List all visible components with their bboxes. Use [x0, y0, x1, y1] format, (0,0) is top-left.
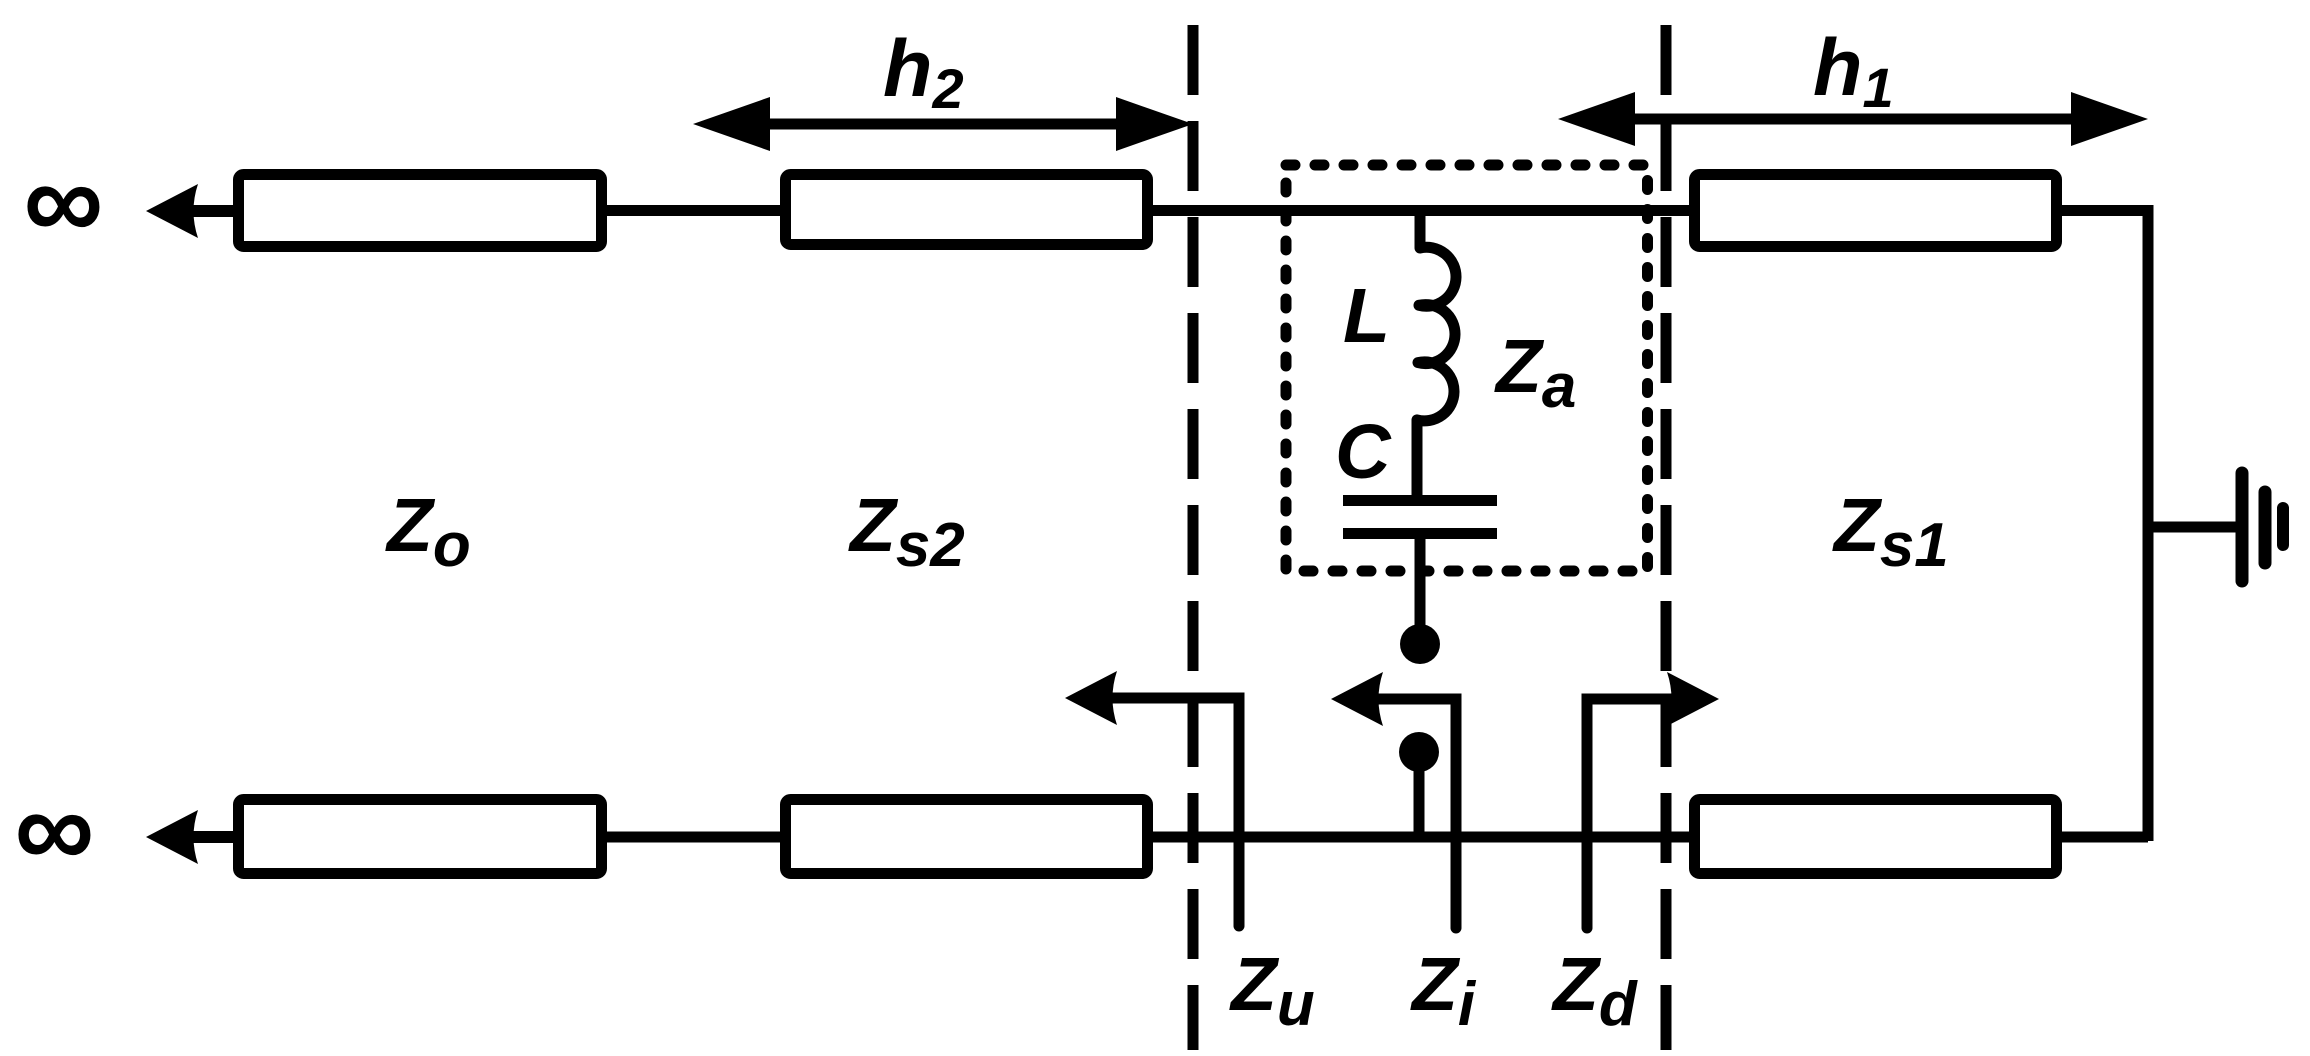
ground symbol (rotated) — [2242, 473, 2283, 581]
ground stub wire — [2148, 522, 2240, 533]
wire top-center across reference planes — [1151, 205, 1691, 216]
svg-text:C: C — [1335, 409, 1392, 495]
arrow top-left (to infinity) — [146, 184, 236, 238]
node dot lower (feed terminal) — [1399, 732, 1439, 772]
svg-text:∞: ∞ — [23, 138, 103, 263]
reference plane dashed line right (Zd plane) — [1661, 25, 1672, 1050]
wire between bottom boxes — [605, 832, 782, 843]
inductor L — [1417, 212, 1456, 497]
arrow bottom-left (to infinity) — [146, 810, 236, 864]
probe Zd (arrow looking right at lower plane) — [1582, 672, 1720, 928]
svg-text:∞: ∞ — [14, 766, 94, 891]
wire from top-right box to right corner and down — [2055, 211, 2148, 842]
probe Zi (arrow looking left at feed) — [1331, 672, 1462, 928]
wire bottom-center across reference planes — [1151, 832, 1691, 843]
transmission line section box top-right (Zs1) — [1695, 175, 2057, 247]
transmission line section box top-left (Z0) — [239, 175, 602, 247]
dimension arrow h1 — [1558, 92, 2148, 146]
svg-text:L: L — [1343, 273, 1390, 359]
transmission line section box top-middle (Zs2) — [786, 175, 1148, 245]
wire between top boxes — [605, 205, 782, 216]
wire capacitor to upper node — [1415, 536, 1426, 644]
transmission line section box bottom-right — [1695, 800, 2057, 874]
dimension arrow h2 — [693, 97, 1193, 151]
probe Zu (arrow looking left at upper plane) — [1065, 671, 1245, 926]
wire lower node to bottom line — [1414, 752, 1425, 842]
node dot upper (feed terminal) — [1400, 624, 1440, 664]
transmission line section box bottom-left — [239, 800, 602, 874]
dotted box around matching network (Za) — [1286, 165, 1648, 571]
reference plane dashed line left (Zu plane) — [1188, 25, 1199, 1050]
transmission line section box bottom-middle — [786, 800, 1148, 874]
wire from bottom-right box to right corner and up — [2055, 837, 2148, 841]
capacitor C plates — [1343, 501, 1497, 534]
